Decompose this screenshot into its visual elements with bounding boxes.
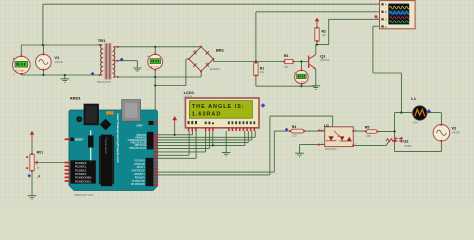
LCD pins (VSS VDD VEE RS RW E D0-D7) [188,128,255,131]
transformer TR1 [100,43,118,79]
voltage probe (blue) on RV1 bottom wire [27,174,40,178]
svg-text:RX PD0/RXD: RX PD0/RXD [131,184,145,186]
ARD1 left pin stubs [65,138,71,182]
DC voltmeter (base) [294,70,308,85]
power +5V arrow left of LCD1 [172,116,177,127]
bridge rectifier BR1 [189,47,214,72]
svg-text:2P4M: 2P4M [405,144,412,148]
ground (Q1 emitter) [312,69,321,89]
svg-text:THE ANGLE IS:: THE ANGLE IS: [192,104,245,110]
wire: TR1 secondary bottom to BR1 AC2, meter stub, drop to ARD1 AREF [118,69,201,122]
svg-text:R4: R4 [292,125,296,129]
svg-text:10k: 10k [284,65,289,69]
triac U2 [386,137,402,143]
wire: LCD RS row [158,131,206,152]
svg-text:PD4/T0/XCK: PD4/T0/XCK [132,171,146,173]
ARD1 digital pin label column upper [147,132,153,150]
svg-text:~PB1/OC1A: ~PB1/OC1A [134,144,147,147]
LCD module LCD1 [185,98,259,128]
ARD1 right pin stubs [154,134,159,186]
ground (RV1 bottom) [28,196,37,200]
svg-text:AREF: AREF [136,124,143,127]
lamp L1 [412,106,428,120]
wire: BR1 positive output to R1 top / R3 left [213,59,284,63]
svg-text:TRAN-2P2S: TRAN-2P2S [97,80,112,84]
voltage probe marker on scope C wire [375,15,379,19]
power +5V arrow above RV1 [30,131,35,138]
wire: U1 pin2 to ground [300,145,325,153]
svg-text:VSINE: VSINE [55,60,63,64]
power +5V arrow above R2 [315,18,320,26]
wire: primary bottom rail (voltmeter/V1/ground to TR1 primary) [21,70,99,79]
svg-text:TX PD1/TXD: TX PD1/TXD [132,181,146,183]
svg-text:C: C [385,19,387,22]
Arduino board ARD1 [65,100,159,191]
svg-text:R3: R3 [284,54,288,58]
svg-text:12V: 12V [413,120,418,124]
svg-text:V2: V2 [451,126,457,131]
wire: LCD RW row [158,131,210,148]
svg-text:~PD5/T1: ~PD5/T1 [136,167,146,169]
wire: LCD D6 to ARD1 [158,131,252,140]
resistor R1 [254,62,258,77]
wire: 5V arrow to VDD row [158,127,193,135]
svg-text:RESET: RESET [75,139,84,142]
potentiometer RV1 [26,153,37,172]
ARD1 RESET label and header [70,138,73,141]
wire: U1 pin4 to triac gate [353,141,389,146]
svg-text:PC1/ADC1: PC1/ADC1 [75,166,87,169]
svg-text:R2: R2 [322,30,326,34]
LCD pin number marks [188,121,256,124]
voltage probe (blue) on TR1 primary bottom [91,72,95,76]
ARD1 digital pin label column lower [146,158,154,186]
svg-text:1.63RAD: 1.63RAD [192,112,222,118]
ARD1 ATmega328 DIP IC [101,135,113,187]
svg-text:360: 360 [367,134,372,138]
wire net A: V1/voltmeter top to scope channel A [21,4,381,56]
svg-text:Q1: Q1 [320,53,326,58]
resistor R3 [283,59,294,63]
wire: TR1 secondary top to BR1 AC1 with meter stub [118,47,201,55]
voltage probe (blue) right of LCD1 [261,103,266,108]
resistor R2 [315,27,319,42]
svg-text:R5: R5 [365,125,369,129]
wire: LCD ground column [225,131,227,152]
svg-text:LCD1: LCD1 [184,90,195,95]
svg-text:ARD1: ARD1 [70,95,82,100]
ARD1 quartz chip (diamond) [100,119,112,131]
wire: ground return rail R1 bottom to Q1 emitter [256,76,316,87]
svg-text:10k: 10k [322,33,327,37]
svg-text:PC2/ADC2: PC2/ADC2 [75,169,87,172]
ARD1 power jack [84,104,99,126]
svg-text:MOC3021: MOC3021 [325,147,337,151]
AC voltmeter (secondary) [147,53,162,71]
AC voltmeter (mains) [12,55,30,76]
svg-text:2W005G: 2W005G [210,67,220,71]
svg-text:PD2/INT0: PD2/INT0 [135,177,146,179]
svg-text:D: D [385,26,387,29]
wire: LCD D7 to ARD1 [158,131,255,137]
wire net B: BR1 DC+ node up to scope channel B [256,12,381,62]
wire: LCD VSS row [158,131,189,155]
svg-text:RV1: RV1 [37,150,44,154]
wire: LCD VEE row [158,131,196,158]
svg-text:~PD6/AIN0: ~PD6/AIN0 [133,163,145,166]
svg-text:VSINE: VSINE [452,130,460,134]
sine source V2 [433,124,450,142]
sine source V1 [36,54,52,71]
svg-text:www.TheEngineeringProjects.com: www.TheEngineeringProjects.com [116,113,120,164]
wire: R2 column (5V arrow to R2 to collector node) [316,25,317,54]
wire: TR1 secondary centre tap to ground [118,61,137,68]
svg-text:AC Volts: AC Volts [15,70,25,73]
ARD1 analog pin label block PC0/ADC0..PC5/ADC5 [70,160,95,183]
ground (TR1 centre tap) [133,68,142,72]
svg-text:SIMULINO UNO: SIMULINO UNO [74,193,93,197]
oscilloscope [380,1,416,29]
wire net C: Q1 collector node to scope channel C [317,19,381,44]
transistor Q1 [308,54,316,69]
wire: BR1 negative output down and left to AREF drop [155,59,189,86]
svg-text:10k: 10k [260,70,265,74]
voltage probe (blue) on TR1 secondary tap [120,58,124,62]
ARD1 diode component [90,130,92,162]
svg-text:+: + [294,70,296,74]
wire: LCD D4 to ARD1 with E column junction [158,131,245,145]
svg-text:~PD3/INT1: ~PD3/INT1 [133,174,145,176]
wire: R4 drive from ARD1 pin, riser x=274.3 [158,131,325,172]
svg-text:AC Volts: AC Volts [151,66,160,69]
optocoupler U1 [318,127,357,147]
svg-text:+: + [147,54,149,58]
svg-text:LM016L: LM016L [184,95,194,99]
svg-text:2N2222: 2N2222 [320,58,330,62]
svg-text:-: - [148,68,149,72]
ground (primary rail) [61,79,70,83]
svg-text:V1: V1 [54,55,60,60]
wire: ARD1 pin to U1 top edge, riser x=269.9 [158,116,333,175]
svg-text:L1: L1 [411,96,416,101]
ARD1 smd capacitor [106,111,114,114]
resistor R4 [289,129,305,133]
ground (below LCD) [222,152,231,156]
svg-text:PC5/ADC5/SCL: PC5/ADC5/SCL [75,180,92,183]
voltage probe (blue) left of R4 [285,128,289,132]
wire: lamp/triac node jog [395,113,413,138]
resistor R5 [365,130,379,134]
ARD1 reset button [76,116,82,122]
svg-text:PC0/ADC0: PC0/ADC0 [75,162,87,165]
ARD1 usb connector [122,100,141,122]
ground (U1 pin2) [295,153,304,157]
svg-text:R1: R1 [260,66,264,70]
wire: lamp right to V2 and V2 return to triac MT1 [395,113,442,152]
wire net D: scope channel D down to lamp/triac node [373,26,402,112]
svg-text:PB0/ICP1/CLKO: PB0/ICP1/CLKO [129,148,146,150]
svg-text:+: + [13,57,15,61]
svg-text:PC4/ADC4/SDA: PC4/ADC4/SDA [75,177,92,180]
svg-text:BR1: BR1 [216,48,225,53]
wire: U1 pin6 to R5, R5 to triac node [353,130,395,132]
svg-text:TR1: TR1 [98,38,106,43]
svg-text:U1: U1 [324,123,330,128]
svg-text:PD7/AIN1: PD7/AIN1 [135,159,146,162]
svg-text:~PB3/MOSI/OC2A: ~PB3/MOSI/OC2A [127,139,147,142]
wire: LCD D5 to ARD1 [158,131,249,142]
svg-text:220: 220 [292,134,297,138]
svg-text:ATMEGA328P: ATMEGA328P [104,140,107,155]
wire: R3 right to Q1 base with meter stub [293,62,308,71]
wire: RV1 5V column, wiper to A0, bottom to ground [32,138,70,196]
svg-text:PC3/ADC3: PC3/ADC3 [75,173,87,176]
voltage probe (blue) right of lamp L1 [427,109,431,113]
svg-text:U2: U2 [403,138,409,143]
